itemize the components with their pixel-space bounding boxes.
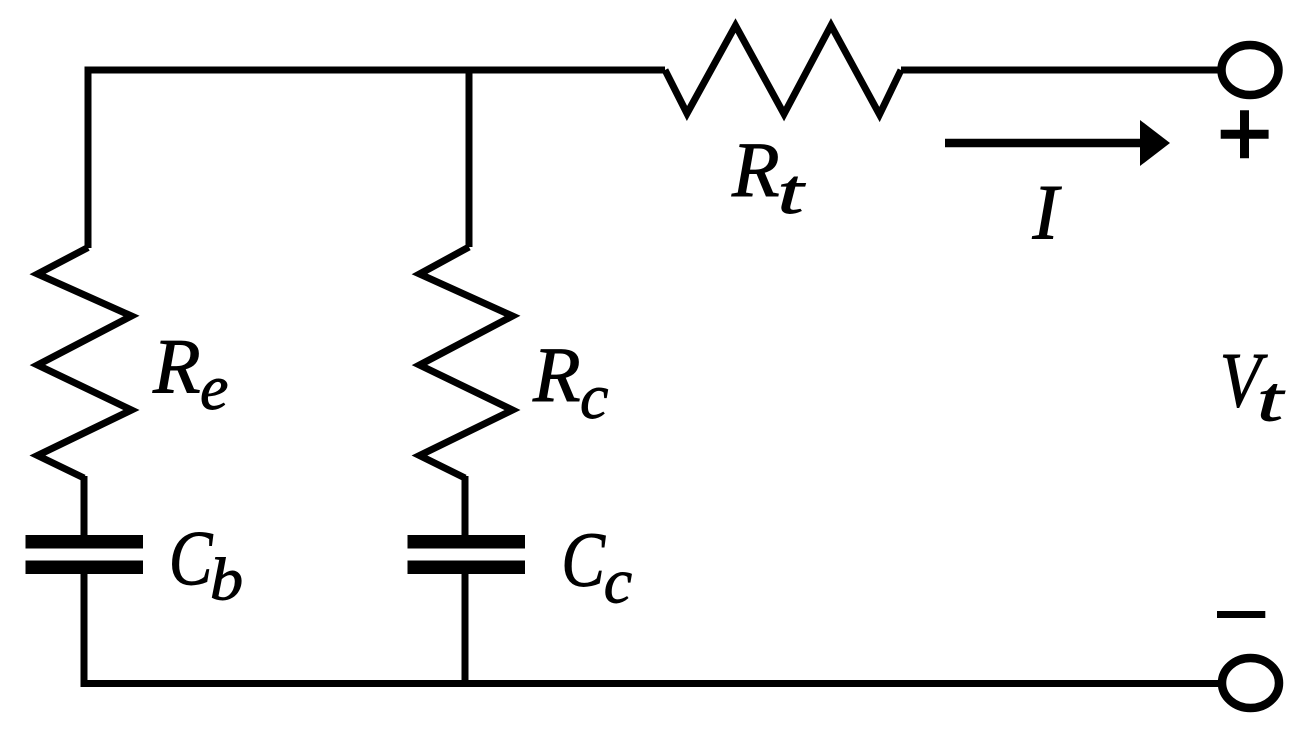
terminal: top-right circle (+) (1222, 45, 1279, 95)
svg-text:R: R (532, 331, 581, 418)
svg-text:C: C (561, 517, 606, 604)
wire: left branch bottom (Cb to bottom bus) (81, 573, 88, 687)
svg-text:t: t (778, 156, 807, 227)
wire: middle branch vertical top (466, 67, 473, 248)
resistor Re (38, 248, 132, 479)
svg-text:t: t (1257, 364, 1286, 435)
resistor Rt (665, 26, 901, 115)
minus sign (1217, 611, 1265, 618)
resistor Rc (420, 247, 513, 478)
wire: middle branch between Rc and Cc (462, 476, 469, 536)
capacitor Cb top plate (26, 535, 144, 549)
capacitor Cb bottom plate (26, 561, 144, 575)
current arrow I head (1140, 120, 1170, 166)
svg-text:R: R (152, 323, 201, 410)
wire: left branch vertical top (85, 67, 92, 249)
label Cc (561, 517, 606, 604)
wire: middle branch bottom (Cc to bottom bus) (462, 573, 469, 687)
label Cb (169, 515, 214, 602)
wire: top bus left segment (node top to Rt) (85, 67, 666, 74)
label Cb subscript b (210, 546, 243, 612)
svg-text:R: R (731, 126, 780, 213)
svg-text:I: I (1032, 169, 1063, 256)
svg-text:C: C (169, 515, 214, 602)
terminal: bottom-right circle (-) (1222, 658, 1279, 708)
svg-text:b: b (210, 546, 243, 612)
capacitor Cc top plate (408, 535, 526, 549)
svg-text:c: c (580, 361, 608, 432)
plus sign (1221, 110, 1269, 158)
capacitor Cc bottom plate (408, 561, 526, 575)
wire: top bus right segment (Rt to + terminal) (901, 67, 1219, 74)
label Vt (1220, 337, 1268, 424)
svg-text:e: e (200, 352, 228, 423)
wire: bottom bus (81, 680, 1219, 687)
svg-text:c: c (604, 546, 632, 617)
wire: left branch between Re and Cb (81, 476, 88, 536)
current arrow I shaft (945, 139, 1146, 148)
